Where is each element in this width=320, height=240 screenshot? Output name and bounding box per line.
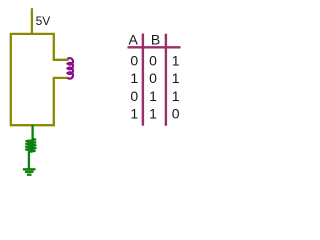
svg-text:5V: 5V bbox=[36, 14, 51, 28]
wire from coil L2 to ground bbox=[28, 152, 30, 169]
svg-text:B: B bbox=[151, 32, 160, 48]
svg-text:0: 0 bbox=[149, 70, 157, 86]
svg-text:1: 1 bbox=[149, 88, 157, 104]
table header A bbox=[129, 32, 139, 48]
relay body outline (olive box with right-side notch) bbox=[11, 34, 69, 125]
table row 2: 1 0 1 bbox=[130, 70, 179, 86]
truth table header underline bbox=[128, 46, 181, 48]
inductor coil L2 (green, 4 flattened turns) bbox=[26, 139, 36, 152]
table row 1: 0 0 1 bbox=[130, 52, 179, 68]
wire 5V supply lead bbox=[31, 8, 33, 34]
svg-text:0: 0 bbox=[130, 52, 138, 68]
table row 4: 1 1 0 bbox=[130, 106, 179, 122]
truth table column divider line 2 (between B and output) bbox=[165, 34, 167, 126]
svg-text:1: 1 bbox=[149, 106, 157, 122]
svg-text:1: 1 bbox=[172, 52, 180, 68]
svg-text:1: 1 bbox=[130, 106, 138, 122]
svg-text:A: A bbox=[129, 32, 139, 48]
svg-text:1: 1 bbox=[172, 70, 180, 86]
svg-text:0: 0 bbox=[149, 52, 157, 68]
truth table column divider line 1 (between A and B) bbox=[142, 34, 144, 126]
node 5V label bbox=[36, 14, 51, 28]
svg-text:1: 1 bbox=[130, 70, 138, 86]
wire from relay bottom to coil L2 bbox=[31, 125, 33, 139]
svg-text:0: 0 bbox=[172, 106, 180, 122]
svg-text:1: 1 bbox=[172, 88, 180, 104]
inductor coil L1 (purple, 4 turns bulging right) bbox=[68, 58, 73, 78]
ground symbol (3 bars) bbox=[23, 169, 36, 174]
table row 3: 0 1 1 bbox=[130, 88, 179, 104]
table header B bbox=[151, 32, 160, 48]
svg-text:0: 0 bbox=[130, 88, 138, 104]
